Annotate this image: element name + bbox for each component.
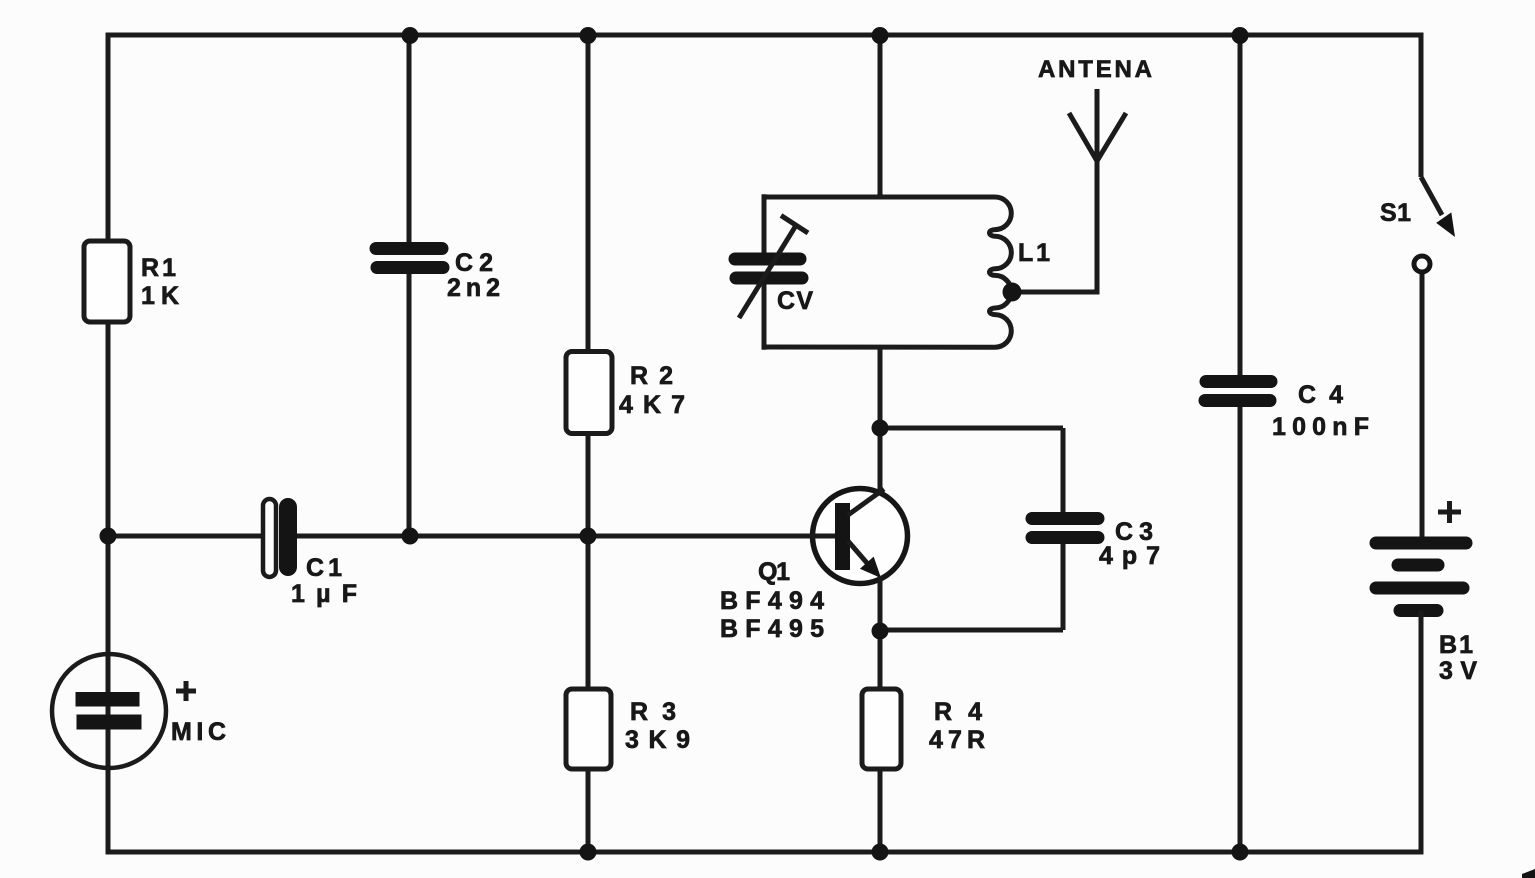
svg-text:47R: 47R	[929, 726, 985, 754]
svg-text:1µF: 1µF	[291, 580, 357, 608]
svg-text:MIC: MIC	[171, 718, 226, 746]
svg-text:1K: 1K	[141, 282, 179, 310]
svg-text:2n2: 2n2	[447, 274, 500, 302]
svg-text:ANTENA: ANTENA	[1038, 56, 1152, 83]
svg-text:Q1: Q1	[758, 558, 790, 586]
svg-text:3K9: 3K9	[625, 726, 690, 754]
svg-text:C1: C1	[306, 554, 342, 582]
svg-text:R1: R1	[141, 254, 176, 282]
svg-text:S1: S1	[1380, 199, 1411, 227]
svg-text:B1: B1	[1439, 631, 1473, 659]
svg-text:4K7: 4K7	[619, 391, 685, 419]
svg-text:4p7: 4p7	[1099, 542, 1160, 570]
